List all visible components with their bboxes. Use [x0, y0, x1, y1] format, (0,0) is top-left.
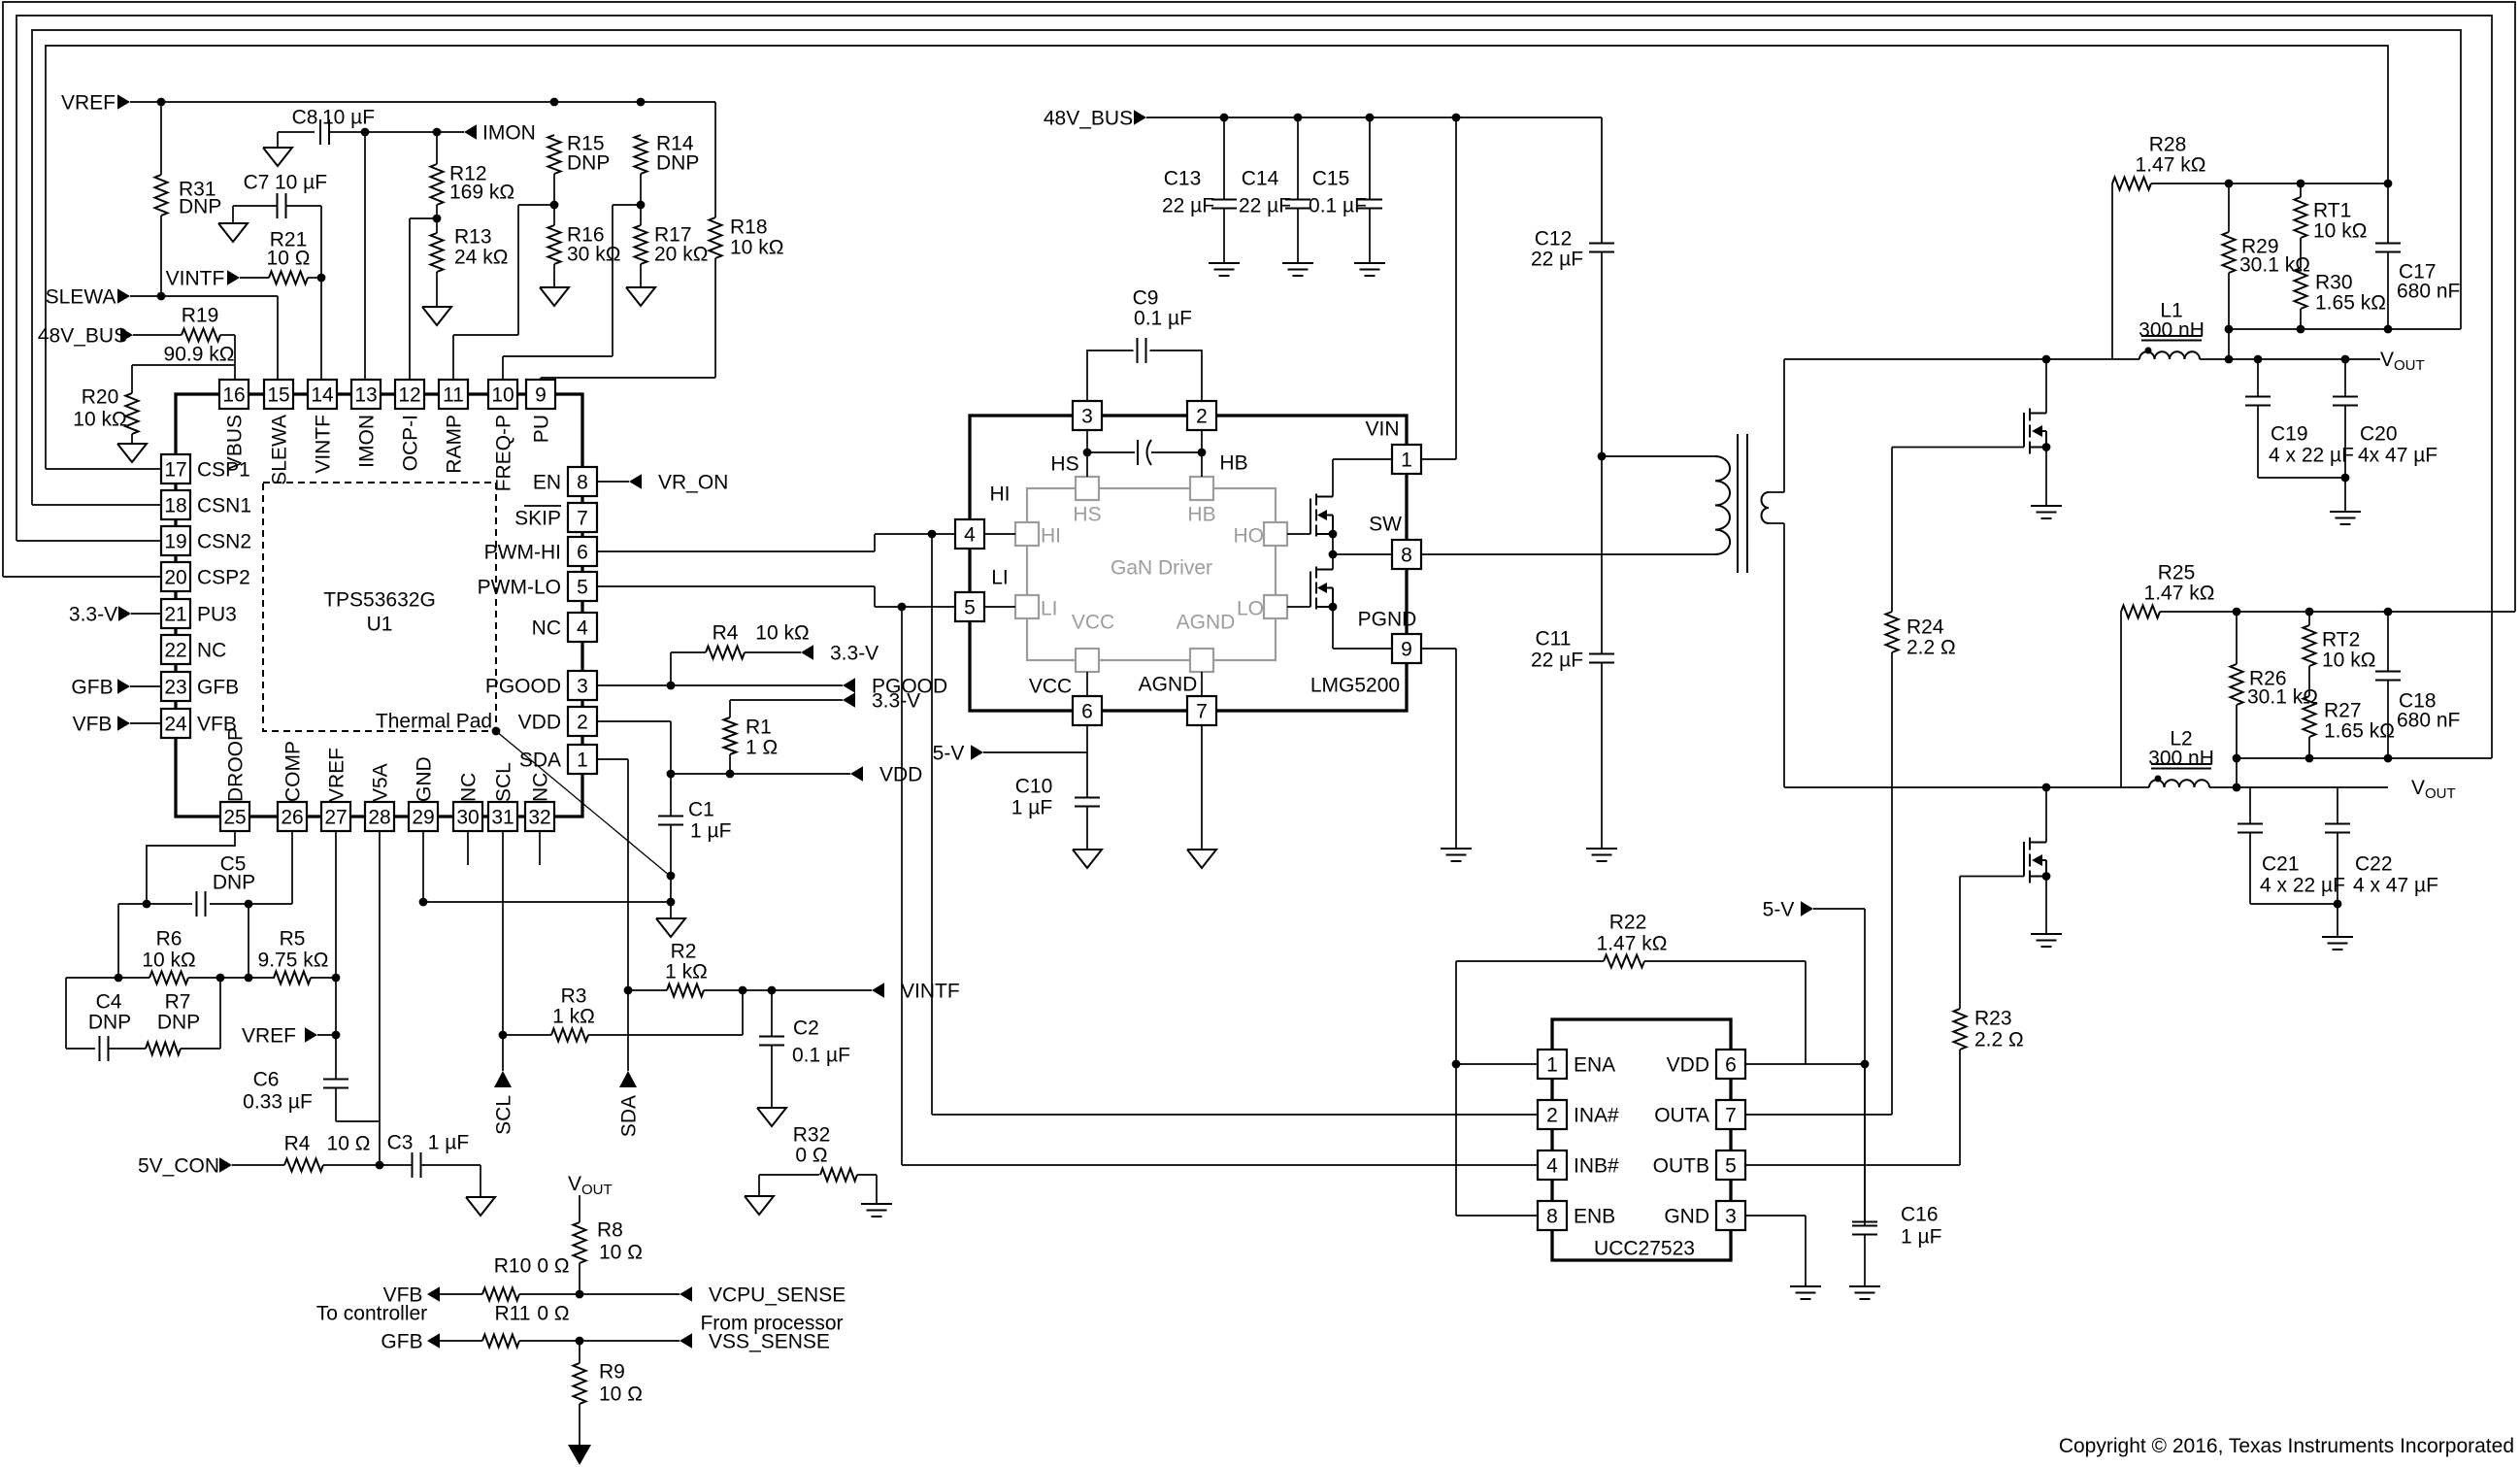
svg-text:1.47 kΩ: 1.47 kΩ: [2136, 153, 2206, 176]
svg-text:14: 14: [311, 383, 334, 406]
svg-text:R25: R25: [2158, 561, 2196, 583]
svg-text:C6: C6: [253, 1068, 280, 1090]
svg-text:R7: R7: [165, 990, 191, 1013]
svg-text:1.47 kΩ: 1.47 kΩ: [1597, 932, 1668, 954]
svg-text:27: 27: [324, 806, 347, 828]
svg-text:Copyright © 2016, Texas Instru: Copyright © 2016, Texas Instruments Inco…: [2059, 1435, 2514, 1457]
svg-text:NC: NC: [197, 639, 226, 661]
svg-text:RT2: RT2: [2322, 628, 2360, 650]
svg-text:R27: R27: [2324, 699, 2362, 721]
svg-text:1: 1: [1546, 1053, 1558, 1076]
svg-text:Thermal Pad: Thermal Pad: [376, 710, 492, 732]
svg-text:V5A: V5A: [369, 763, 391, 802]
svg-text:RAMP: RAMP: [443, 415, 465, 474]
svg-text:DNP: DNP: [567, 151, 610, 174]
svg-text:R9: R9: [599, 1360, 625, 1383]
svg-text:HS: HS: [1073, 503, 1101, 525]
svg-text:C16: C16: [1901, 1203, 1939, 1225]
svg-text:HI: HI: [990, 483, 1011, 505]
svg-text:C7: C7: [244, 171, 270, 193]
svg-text:5: 5: [577, 576, 588, 598]
svg-text:C11: C11: [1536, 627, 1572, 650]
svg-text:C21: C21: [2262, 852, 2300, 875]
svg-text:9: 9: [535, 383, 547, 406]
svg-text:0.33 µF: 0.33 µF: [243, 1090, 313, 1113]
svg-text:32: 32: [528, 806, 550, 828]
svg-text:SLEWA: SLEWA: [268, 415, 290, 485]
svg-text:VFB: VFB: [73, 713, 113, 735]
svg-text:DNP: DNP: [656, 151, 699, 174]
svg-text:10 µF: 10 µF: [322, 106, 375, 128]
svg-text:C9: C9: [1133, 286, 1159, 309]
svg-text:R8: R8: [597, 1218, 623, 1241]
svg-text:CSP2: CSP2: [197, 566, 250, 588]
svg-text:VCC: VCC: [1029, 675, 1072, 697]
svg-text:680 nF: 680 nF: [2397, 709, 2460, 731]
svg-text:24: 24: [164, 713, 187, 735]
svg-text:SW: SW: [1369, 513, 1402, 535]
svg-text:22 µF: 22 µF: [1531, 248, 1583, 270]
svg-text:HO: HO: [1234, 524, 1265, 547]
svg-text:6: 6: [1081, 700, 1093, 722]
svg-text:2: 2: [1196, 405, 1208, 427]
svg-text:C14: C14: [1242, 167, 1279, 189]
svg-text:4 x 22 µF: 4 x 22 µF: [2260, 874, 2345, 896]
svg-text:FREQ-P: FREQ-P: [492, 415, 514, 491]
svg-text:C20: C20: [2360, 422, 2398, 445]
svg-text:1.65 kΩ: 1.65 kΩ: [2324, 719, 2395, 742]
svg-text:R19: R19: [182, 304, 219, 326]
svg-text:1: 1: [1401, 449, 1412, 471]
svg-text:4: 4: [964, 523, 976, 546]
svg-text:VINTF: VINTF: [166, 267, 225, 289]
svg-text:13: 13: [354, 383, 377, 406]
svg-text:PU: PU: [530, 415, 552, 443]
svg-text:VINTF: VINTF: [312, 415, 334, 474]
svg-text:C22: C22: [2355, 852, 2393, 875]
svg-text:10: 10: [491, 383, 514, 406]
svg-text:PWM-LO: PWM-LO: [478, 576, 561, 598]
svg-text:ENB: ENB: [1574, 1205, 1615, 1227]
svg-text:5V_CON: 5V_CON: [138, 1154, 219, 1177]
svg-text:C4: C4: [96, 990, 122, 1013]
svg-text:10 kΩ: 10 kΩ: [2313, 219, 2367, 242]
svg-text:22 µF: 22 µF: [1531, 649, 1583, 671]
svg-text:R3: R3: [561, 984, 587, 1007]
svg-text:10 µF: 10 µF: [275, 171, 327, 193]
svg-text:20: 20: [164, 566, 186, 588]
svg-text:20 kΩ: 20 kΩ: [654, 243, 708, 265]
svg-text:SLEWA: SLEWA: [46, 285, 116, 308]
svg-text:12: 12: [398, 383, 420, 406]
svg-text:4: 4: [1546, 1154, 1558, 1177]
svg-text:C3: C3: [387, 1131, 414, 1153]
svg-text:R28: R28: [2149, 133, 2187, 155]
svg-text:HB: HB: [1219, 451, 1247, 474]
svg-text:SCL: SCL: [492, 1095, 514, 1135]
svg-text:VDD: VDD: [518, 711, 561, 733]
svg-text:LO: LO: [1237, 597, 1264, 619]
svg-text:U1: U1: [367, 613, 393, 635]
svg-text:29: 29: [412, 806, 434, 828]
svg-text:0.1 µF: 0.1 µF: [792, 1044, 850, 1066]
svg-text:CSN1: CSN1: [197, 494, 251, 517]
svg-text:10 kΩ: 10 kΩ: [2322, 649, 2375, 671]
svg-text:19: 19: [164, 530, 186, 552]
svg-text:NC: NC: [529, 773, 551, 802]
svg-text:6: 6: [1725, 1053, 1737, 1076]
svg-text:SCL: SCL: [492, 762, 514, 802]
svg-text:21: 21: [164, 603, 186, 625]
svg-text:C19: C19: [2271, 422, 2308, 445]
svg-text:10 kΩ: 10 kΩ: [755, 621, 809, 644]
svg-text:NC: NC: [457, 773, 480, 802]
svg-text:AGND: AGND: [1139, 673, 1198, 695]
svg-text:R20: R20: [82, 385, 119, 408]
svg-text:PGND: PGND: [1358, 608, 1417, 630]
svg-text:5-V: 5-V: [933, 742, 965, 764]
svg-text:18: 18: [164, 494, 186, 517]
svg-text:2: 2: [1546, 1104, 1558, 1126]
svg-text:VSS_SENSE: VSS_SENSE: [709, 1330, 830, 1352]
svg-text:11: 11: [443, 383, 464, 406]
svg-text:3.3-V: 3.3-V: [830, 642, 879, 664]
svg-text:0.1 µF: 0.1 µF: [1309, 194, 1367, 217]
svg-text:7: 7: [1725, 1104, 1737, 1126]
svg-text:1 kΩ: 1 kΩ: [552, 1005, 595, 1027]
svg-text:4: 4: [577, 617, 588, 639]
svg-text:10 kΩ: 10 kΩ: [730, 236, 783, 258]
svg-text:1 kΩ: 1 kΩ: [665, 960, 708, 983]
svg-text:5-V: 5-V: [1763, 898, 1795, 920]
svg-text:CSP1: CSP1: [197, 458, 250, 481]
svg-text:DROOP: DROOP: [224, 727, 247, 802]
svg-text:25: 25: [223, 806, 246, 828]
svg-text:INB#: INB#: [1574, 1154, 1619, 1177]
svg-text:4x 47 µF: 4x 47 µF: [2358, 444, 2437, 466]
svg-text:SDA: SDA: [519, 749, 561, 771]
svg-text:R24: R24: [1907, 616, 1944, 638]
svg-text:OCP-I: OCP-I: [399, 415, 421, 471]
svg-text:VREF: VREF: [325, 748, 348, 802]
svg-text:R1: R1: [746, 716, 772, 738]
svg-text:2.2 Ω: 2.2 Ω: [1974, 1028, 2024, 1050]
svg-text:1 Ω: 1 Ω: [746, 736, 778, 758]
svg-text:R10: R10: [494, 1254, 532, 1277]
svg-text:7: 7: [1196, 700, 1208, 722]
svg-text:300 nH: 300 nH: [2148, 747, 2214, 769]
svg-text:C1: C1: [688, 798, 714, 820]
svg-text:C13: C13: [1164, 167, 1202, 189]
svg-text:CSN2: CSN2: [197, 530, 251, 552]
svg-text:680 nF: 680 nF: [2397, 280, 2460, 302]
svg-text:DNP: DNP: [213, 871, 255, 893]
svg-text:15: 15: [267, 383, 289, 406]
svg-text:9.75 kΩ: 9.75 kΩ: [258, 949, 329, 971]
svg-text:R4: R4: [284, 1132, 311, 1154]
svg-text:3: 3: [1725, 1205, 1737, 1227]
svg-text:To controller: To controller: [316, 1302, 427, 1324]
svg-text:10 Ω: 10 Ω: [267, 247, 311, 269]
svg-text:COMP: COMP: [282, 741, 304, 802]
svg-text:1 µF: 1 µF: [690, 819, 731, 842]
svg-text:26: 26: [281, 806, 303, 828]
svg-text:17: 17: [164, 458, 186, 481]
svg-text:30: 30: [456, 806, 479, 828]
svg-text:LI: LI: [1041, 597, 1058, 619]
svg-text:5: 5: [1725, 1154, 1737, 1177]
svg-text:22: 22: [164, 639, 186, 661]
svg-text:UCC27523: UCC27523: [1594, 1237, 1695, 1259]
svg-text:GFB: GFB: [381, 1330, 422, 1352]
svg-text:8: 8: [1401, 544, 1412, 566]
svg-text:3.3-V: 3.3-V: [872, 689, 920, 712]
svg-text:DNP: DNP: [157, 1011, 200, 1033]
svg-text:7: 7: [577, 507, 588, 529]
svg-text:VR_ON: VR_ON: [658, 471, 728, 493]
svg-text:NC: NC: [532, 617, 561, 639]
svg-text:IMON: IMON: [355, 415, 378, 468]
svg-text:HB: HB: [1187, 503, 1215, 525]
svg-text:LMG5200: LMG5200: [1310, 674, 1400, 696]
svg-text:R4: R4: [713, 621, 739, 644]
svg-text:VINTF: VINTF: [901, 980, 960, 1002]
svg-text:R13: R13: [454, 225, 492, 248]
svg-text:2: 2: [577, 711, 588, 733]
svg-text:48V_BUS: 48V_BUS: [1044, 107, 1133, 129]
svg-text:DNP: DNP: [88, 1011, 131, 1033]
svg-text:C8: C8: [292, 106, 318, 128]
svg-text:0.1 µF: 0.1 µF: [1134, 307, 1192, 329]
svg-text:VCPU_SENSE: VCPU_SENSE: [709, 1284, 846, 1306]
svg-text:C2: C2: [793, 1017, 819, 1039]
svg-text:DNP: DNP: [179, 195, 221, 217]
svg-text:C12: C12: [1535, 227, 1573, 250]
svg-text:1: 1: [577, 749, 588, 771]
svg-text:GFB: GFB: [71, 676, 113, 698]
svg-text:GaN Driver: GaN Driver: [1111, 556, 1212, 579]
svg-text:R32: R32: [793, 1123, 831, 1146]
svg-text:VREF: VREF: [61, 91, 116, 114]
svg-text:GND: GND: [413, 756, 435, 802]
svg-text:R5: R5: [280, 927, 306, 950]
svg-text:4 x 47 µF: 4 x 47 µF: [2353, 874, 2438, 896]
svg-text:AGND: AGND: [1177, 611, 1236, 633]
svg-text:TPS53632G: TPS53632G: [323, 588, 436, 611]
svg-text:OUTB: OUTB: [1653, 1154, 1709, 1177]
svg-text:RT1: RT1: [2313, 199, 2351, 221]
svg-text:10 Ω: 10 Ω: [327, 1132, 371, 1154]
svg-text:EN: EN: [533, 471, 561, 493]
svg-text:PWM-HI: PWM-HI: [484, 541, 561, 563]
svg-text:R23: R23: [1974, 1007, 2012, 1029]
svg-text:GND: GND: [1664, 1205, 1709, 1227]
svg-text:10 Ω: 10 Ω: [599, 1241, 643, 1263]
svg-text:SKIP: SKIP: [514, 507, 561, 529]
svg-text:1.65 kΩ: 1.65 kΩ: [2315, 291, 2386, 314]
svg-text:PU3: PU3: [197, 603, 237, 625]
svg-text:VDD: VDD: [879, 763, 922, 785]
svg-text:GFB: GFB: [197, 676, 239, 698]
svg-text:169 kΩ: 169 kΩ: [449, 181, 514, 203]
svg-text:10 kΩ: 10 kΩ: [142, 949, 195, 971]
svg-text:VDD: VDD: [1667, 1053, 1709, 1076]
svg-text:8: 8: [1546, 1205, 1558, 1227]
svg-text:VREF: VREF: [242, 1024, 296, 1047]
svg-text:300 nH: 300 nH: [2139, 318, 2205, 341]
svg-text:3.3-V: 3.3-V: [69, 603, 117, 625]
svg-text:6: 6: [577, 541, 588, 563]
svg-text:ENA: ENA: [1574, 1053, 1615, 1076]
svg-text:HI: HI: [1041, 524, 1061, 547]
svg-text:R30: R30: [2315, 271, 2353, 293]
svg-text:R11: R11: [495, 1302, 531, 1324]
svg-text:VIN: VIN: [1365, 417, 1399, 440]
svg-text:24 kΩ: 24 kΩ: [454, 246, 508, 268]
svg-text:31: 31: [491, 806, 514, 828]
svg-text:3: 3: [577, 675, 588, 697]
svg-text:R6: R6: [156, 927, 182, 950]
svg-text:0 Ω: 0 Ω: [537, 1302, 569, 1324]
svg-text:8: 8: [577, 471, 588, 493]
svg-text:5: 5: [964, 596, 976, 618]
svg-text:22 µF: 22 µF: [1162, 194, 1214, 217]
svg-text:IMON: IMON: [482, 121, 536, 144]
svg-text:HS: HS: [1050, 452, 1078, 475]
svg-text:1.47 kΩ: 1.47 kΩ: [2144, 582, 2215, 604]
svg-text:28: 28: [368, 806, 390, 828]
svg-text:R2: R2: [671, 940, 697, 962]
svg-text:90.9 kΩ: 90.9 kΩ: [164, 343, 235, 365]
svg-text:0 Ω: 0 Ω: [537, 1254, 569, 1277]
svg-text:R18: R18: [730, 216, 768, 238]
svg-text:16: 16: [222, 383, 245, 406]
svg-text:C15: C15: [1312, 167, 1350, 189]
svg-text:VCC: VCC: [1072, 611, 1114, 633]
svg-text:23: 23: [164, 676, 186, 698]
svg-text:LI: LI: [991, 566, 1009, 588]
svg-text:INA#: INA#: [1574, 1104, 1619, 1126]
svg-text:1 µF: 1 µF: [1011, 796, 1052, 818]
svg-text:10 kΩ: 10 kΩ: [73, 408, 126, 430]
svg-text:C10: C10: [1015, 775, 1053, 797]
svg-text:22 µF: 22 µF: [1239, 194, 1291, 217]
svg-text:0 Ω: 0 Ω: [795, 1144, 827, 1166]
svg-text:10 Ω: 10 Ω: [599, 1383, 643, 1405]
svg-text:OUTA: OUTA: [1654, 1104, 1709, 1126]
svg-text:48V_BUS: 48V_BUS: [38, 324, 127, 347]
svg-text:2.2 Ω: 2.2 Ω: [1907, 636, 1956, 658]
svg-text:9: 9: [1401, 638, 1412, 660]
svg-text:SDA: SDA: [617, 1095, 640, 1137]
svg-text:4 x 22 µF: 4 x 22 µF: [2269, 444, 2354, 466]
svg-text:1 µF: 1 µF: [1901, 1225, 1941, 1248]
svg-text:1 µF: 1 µF: [428, 1131, 469, 1153]
svg-text:R22: R22: [1609, 911, 1647, 933]
svg-text:3: 3: [1081, 405, 1093, 427]
svg-text:PGOOD: PGOOD: [485, 675, 561, 697]
